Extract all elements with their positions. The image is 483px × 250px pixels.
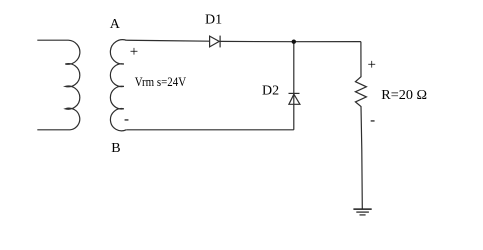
wire D1 cathode to junction xyxy=(220,40,294,42)
wire bottom return to secondary xyxy=(126,129,294,131)
svg-text:Vrm s=24V: Vrm s=24V xyxy=(135,74,187,89)
svg-text:B: B xyxy=(111,141,120,156)
svg-text:R=20 Ω: R=20 Ω xyxy=(381,88,427,103)
transformer primary winding L1 xyxy=(37,40,80,130)
svg-text:-: - xyxy=(370,113,375,129)
svg-text:+: + xyxy=(130,44,138,60)
resistor R zigzag xyxy=(355,42,366,209)
ground xyxy=(353,209,371,215)
diode D1 xyxy=(210,36,221,48)
svg-text:D1: D1 xyxy=(205,13,222,28)
junction node dot xyxy=(292,40,296,44)
diode D2 xyxy=(289,93,300,104)
svg-text:A: A xyxy=(110,17,121,32)
svg-text:D2: D2 xyxy=(262,83,279,98)
wire secondary top to D1 anode xyxy=(126,40,210,41)
wire junction down through D2 xyxy=(293,42,295,130)
svg-text:+: + xyxy=(368,57,376,73)
wire junction to resistor top corner xyxy=(294,41,361,43)
svg-text:-: - xyxy=(124,112,129,128)
transformer secondary winding L2 xyxy=(110,40,126,131)
